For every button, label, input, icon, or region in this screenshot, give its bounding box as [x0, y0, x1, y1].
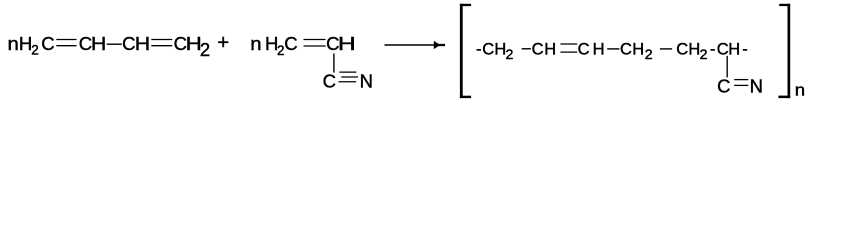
- svg-text:C: C: [578, 41, 590, 59]
- svg-text:H: H: [91, 34, 106, 54]
- butadiene single bond: [107, 43, 122, 45]
- polymer nitrile bond lines: [734, 80, 748, 86]
- svg-text:C: C: [284, 33, 297, 54]
- polymer C-C vertical bond: [726, 56, 728, 78]
- svg-text:-: -: [710, 41, 716, 59]
- polymer single bond 3: [660, 48, 672, 49]
- svg-text:C: C: [41, 33, 54, 54]
- butadiene double bond 1: [56, 40, 76, 46]
- svg-text:-: -: [742, 41, 748, 59]
- svg-text:H: H: [544, 41, 556, 59]
- svg-text:2: 2: [645, 47, 653, 63]
- svg-text:N: N: [750, 76, 763, 97]
- svg-text:C: C: [620, 41, 632, 59]
- svg-text:H: H: [135, 34, 150, 54]
- svg-text:C: C: [717, 76, 730, 97]
- reaction arrow head: [434, 41, 445, 49]
- svg-text:H: H: [688, 41, 700, 59]
- svg-text:C: C: [122, 33, 135, 54]
- svg-text:N: N: [360, 71, 373, 92]
- acrylonitrile C-C vertical bond: [333, 54, 335, 73]
- svg-text:2: 2: [700, 47, 708, 63]
- closing bracket: [778, 4, 790, 98]
- reaction arrow shaft: [385, 44, 437, 46]
- svg-text:H: H: [19, 33, 32, 54]
- svg-text:2: 2: [31, 42, 39, 57]
- opening bracket: [460, 4, 471, 98]
- svg-text:n: n: [250, 34, 261, 55]
- svg-text:H: H: [728, 41, 740, 59]
- svg-text:n: n: [8, 34, 19, 55]
- svg-text:n: n: [795, 81, 805, 100]
- polymer double bond: [560, 44, 577, 52]
- svg-text:+: +: [217, 32, 229, 54]
- svg-text:C: C: [676, 41, 688, 59]
- acrylonitrile triple bond: [339, 72, 359, 82]
- svg-text:2: 2: [200, 39, 210, 60]
- svg-text:C: C: [532, 41, 544, 59]
- polymer single bond 2: [607, 48, 619, 49]
- svg-text:H: H: [632, 41, 644, 59]
- svg-text:H: H: [593, 41, 605, 59]
- svg-text:C: C: [323, 71, 336, 92]
- acrylonitrile double bond: [304, 40, 326, 47]
- butadiene double bond 2: [151, 40, 172, 46]
- svg-text:-: -: [476, 41, 482, 59]
- svg-text:2: 2: [506, 47, 514, 63]
- svg-text:C: C: [482, 41, 494, 59]
- polymer single bond 1: [522, 48, 531, 49]
- svg-text:H: H: [338, 33, 356, 54]
